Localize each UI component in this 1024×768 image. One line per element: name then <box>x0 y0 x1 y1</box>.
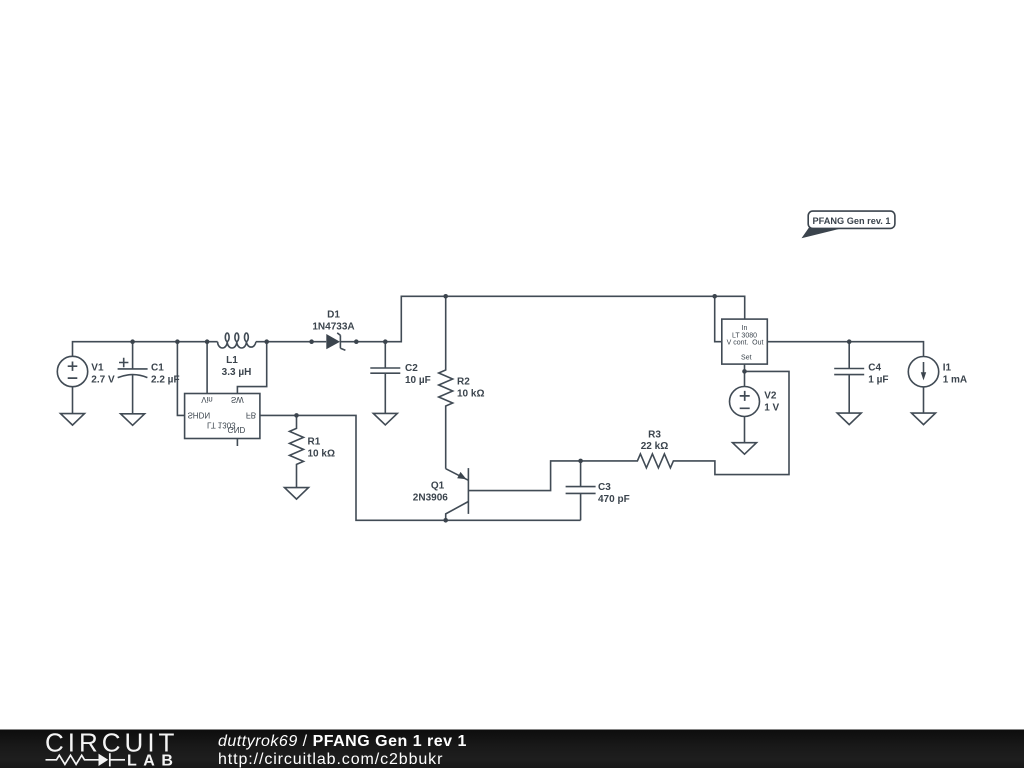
svg-text:1 V: 1 V <box>764 402 779 413</box>
svg-text:C2: C2 <box>405 363 418 374</box>
svg-text:FB: FB <box>246 411 256 420</box>
svg-text:GND: GND <box>228 425 246 434</box>
svg-text:10 kΩ: 10 kΩ <box>457 389 484 400</box>
svg-text:2.2 µF: 2.2 µF <box>151 374 180 385</box>
svg-text:Set: Set <box>741 354 752 361</box>
svg-text:R3: R3 <box>648 429 661 440</box>
svg-text:L1: L1 <box>226 355 238 366</box>
svg-text:D1: D1 <box>327 310 340 321</box>
svg-text:I1: I1 <box>943 362 952 373</box>
svg-text:V cont.: V cont. <box>727 339 749 346</box>
svg-text:R2: R2 <box>457 377 470 388</box>
svg-text:1 µF: 1 µF <box>868 374 888 385</box>
svg-text:R1: R1 <box>308 436 321 447</box>
svg-text:C4: C4 <box>868 362 881 373</box>
svg-text:2.7 V: 2.7 V <box>91 374 115 385</box>
svg-text:Q1: Q1 <box>431 480 445 491</box>
svg-text:3.3 µH: 3.3 µH <box>222 367 252 378</box>
svg-text:2N3906: 2N3906 <box>413 492 448 503</box>
svg-text:V1: V1 <box>91 362 104 373</box>
svg-text:duttyrok69 / PFANG Gen 1 rev 1: duttyrok69 / PFANG Gen 1 rev 1 <box>218 733 467 750</box>
svg-text:Vin: Vin <box>201 395 212 404</box>
svg-text:1 mA: 1 mA <box>943 374 967 385</box>
svg-text:http://circuitlab.com/c2bbukr: http://circuitlab.com/c2bbukr <box>218 751 443 768</box>
svg-text:1N4733A: 1N4733A <box>312 321 354 332</box>
svg-text:PFANG Gen rev. 1: PFANG Gen rev. 1 <box>813 216 891 226</box>
svg-text:LT 3080: LT 3080 <box>732 332 757 339</box>
svg-text:470 pF: 470 pF <box>598 494 630 505</box>
svg-text:In: In <box>742 325 748 332</box>
svg-text:SHDN: SHDN <box>187 411 210 420</box>
svg-text:C3: C3 <box>598 482 611 493</box>
svg-text:Out: Out <box>752 339 763 346</box>
svg-text:C1: C1 <box>151 362 164 373</box>
svg-text:LAB: LAB <box>127 753 179 768</box>
svg-text:SW: SW <box>231 395 244 404</box>
svg-text:10 µF: 10 µF <box>405 375 431 386</box>
svg-text:22 kΩ: 22 kΩ <box>641 441 668 452</box>
svg-text:V2: V2 <box>764 390 777 401</box>
svg-text:10 kΩ: 10 kΩ <box>308 448 335 459</box>
